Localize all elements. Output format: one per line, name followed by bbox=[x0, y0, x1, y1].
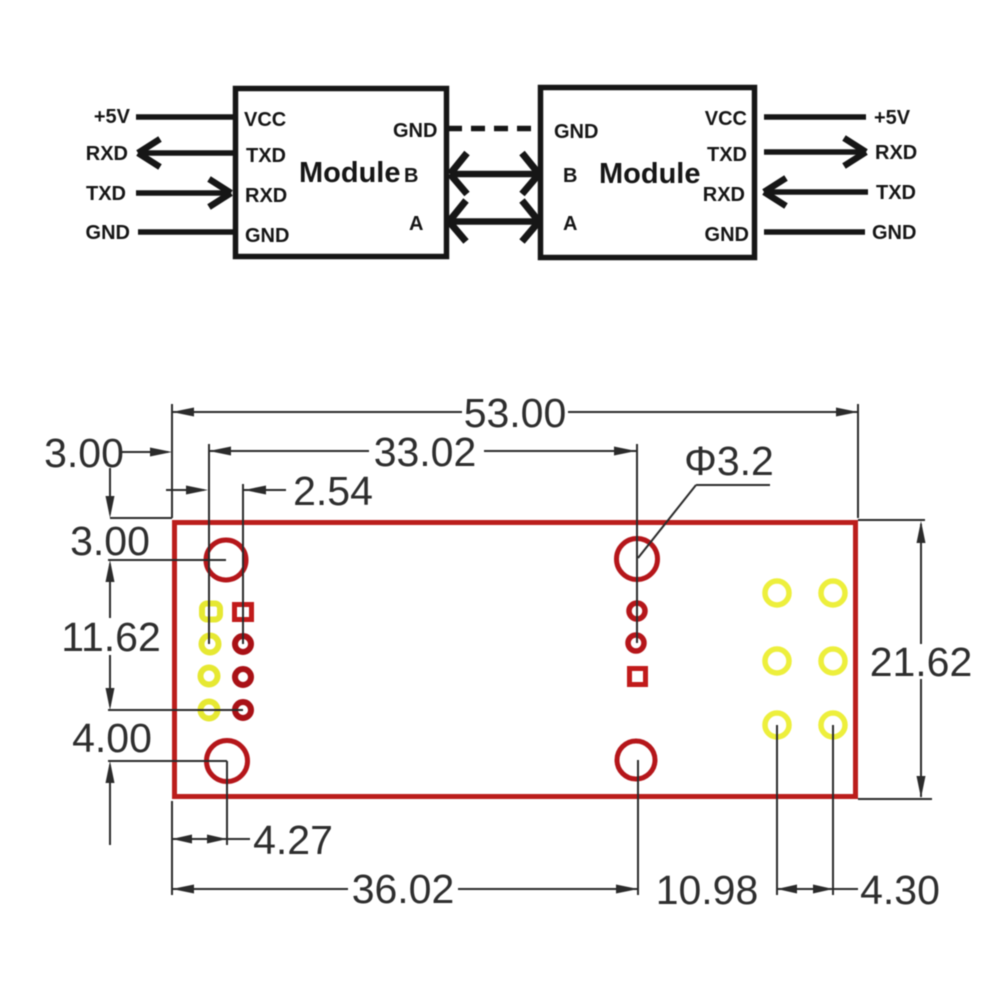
svg-text:+5V: +5V bbox=[874, 107, 911, 129]
dimension 4.30 bbox=[777, 867, 940, 913]
mounting hole H1 top-left bbox=[206, 540, 246, 580]
module U1 label bbox=[299, 157, 401, 189]
module U1 pin B bbox=[404, 165, 418, 187]
dimension 36.02 bbox=[172, 866, 638, 912]
node RXD left bbox=[86, 143, 128, 165]
extension line board right top bbox=[857, 404, 859, 518]
module U2 pin VCC bbox=[705, 108, 747, 130]
dimension 21.62 bbox=[870, 521, 973, 798]
svg-text:2.54: 2.54 bbox=[293, 468, 373, 514]
node GND left bbox=[86, 222, 130, 244]
svg-text:RXD: RXD bbox=[703, 184, 745, 206]
extension line hole H3 center bbox=[108, 760, 227, 762]
svg-text:4.27: 4.27 bbox=[253, 817, 333, 863]
svg-text:RXD: RXD bbox=[245, 185, 287, 207]
pad P4 yellow round bbox=[201, 702, 218, 719]
svg-text:TXD: TXD bbox=[876, 182, 916, 204]
svg-text:B: B bbox=[563, 165, 577, 187]
dimension 33.02 bbox=[209, 429, 636, 475]
module U1 box bbox=[236, 89, 447, 257]
svg-text:Module: Module bbox=[599, 158, 701, 190]
svg-text:33.02: 33.02 bbox=[374, 429, 477, 475]
module U2 pin TXD bbox=[707, 144, 747, 166]
dimension label Φ3.2 bbox=[638, 438, 774, 558]
svg-text:GND: GND bbox=[554, 121, 598, 143]
wire +5V to U1 VCC bbox=[136, 114, 233, 120]
wire TXD to U2 RXD arrow bbox=[764, 178, 868, 206]
dimension 2.54 bbox=[166, 468, 373, 514]
dimension 53.00 bbox=[172, 390, 858, 436]
PCB board outline bbox=[175, 523, 856, 797]
module U2 pin GND left bbox=[554, 121, 598, 143]
node RXD right bbox=[875, 142, 917, 164]
pad Q1 red square bbox=[235, 605, 252, 620]
svg-text:4.30: 4.30 bbox=[860, 867, 940, 913]
pad P2 yellow round bbox=[202, 636, 219, 653]
svg-text:4.00: 4.00 bbox=[72, 715, 152, 761]
pad R4 yellow bbox=[821, 649, 845, 673]
svg-text:36.02: 36.02 bbox=[352, 866, 455, 912]
pad M2 red round mid bbox=[628, 635, 644, 651]
extension line board left bottom bbox=[171, 801, 173, 895]
pad Q4 red round bbox=[235, 702, 251, 718]
extension line pad row 4 bbox=[108, 709, 243, 711]
svg-text:GND: GND bbox=[872, 222, 916, 244]
extension line board bottom right stub bbox=[858, 798, 932, 800]
node +5V right bbox=[874, 107, 911, 129]
wire GND dashed link bbox=[448, 126, 541, 132]
pad M3 red square mid bbox=[630, 669, 646, 685]
pad R6 yellow bbox=[821, 713, 845, 737]
extension line hole mid bbox=[636, 444, 638, 643]
svg-text:B: B bbox=[404, 165, 418, 187]
mounting hole H4 bottom-mid bbox=[617, 741, 655, 779]
pad Q3 red round bbox=[235, 669, 251, 685]
svg-text:A: A bbox=[563, 213, 577, 235]
module U2 pin RXD bbox=[703, 184, 745, 206]
svg-text:3.00: 3.00 bbox=[70, 518, 150, 564]
svg-text:10.98: 10.98 bbox=[656, 867, 759, 913]
node TXD right bbox=[876, 182, 916, 204]
mounting hole H3 bottom-left bbox=[207, 741, 248, 782]
wire U2 GND to GND bbox=[764, 229, 865, 235]
svg-text:RXD: RXD bbox=[875, 142, 917, 164]
extension line board top left stub bbox=[110, 517, 172, 519]
svg-text:VCC: VCC bbox=[244, 109, 286, 131]
module U2 label bbox=[599, 158, 701, 190]
module U2 pin B bbox=[563, 165, 577, 187]
dimension 3.00 vertical bbox=[70, 468, 150, 564]
pad R1 yellow bbox=[765, 581, 789, 605]
module U2 pin GND bbox=[705, 224, 749, 246]
dimension 4.27 bbox=[172, 817, 333, 863]
wire U1 TXD to RXD arrow bbox=[138, 139, 233, 167]
extension line hole H1 center bbox=[108, 559, 226, 561]
wire TXD to U1 RXD arrow bbox=[136, 179, 231, 207]
svg-text:RXD: RXD bbox=[86, 143, 128, 165]
pad R3 yellow bbox=[765, 649, 789, 673]
svg-text:TXD: TXD bbox=[707, 144, 747, 166]
extension line pad R6 vertical bbox=[832, 725, 834, 895]
module U1 pin A bbox=[409, 213, 423, 235]
svg-text:TXD: TXD bbox=[246, 145, 286, 167]
svg-text:VCC: VCC bbox=[705, 108, 747, 130]
wire B bus arrow bbox=[450, 153, 539, 194]
extension line hole H4 vertical bbox=[637, 760, 639, 895]
svg-text:TXD: TXD bbox=[86, 183, 126, 205]
module U1 pin TXD bbox=[246, 145, 286, 167]
svg-text:53.00: 53.00 bbox=[464, 390, 567, 436]
dimension 3.00 horizontal bbox=[44, 430, 172, 476]
wire U2 VCC to +5V bbox=[764, 114, 866, 120]
svg-text:11.62: 11.62 bbox=[61, 614, 161, 660]
pad R2 yellow bbox=[821, 581, 845, 605]
svg-text:21.62: 21.62 bbox=[870, 639, 973, 685]
pad M1 red round mid bbox=[629, 603, 645, 619]
module U1 pin GND right bbox=[393, 120, 437, 142]
node TXD left bbox=[86, 183, 126, 205]
module U1 pin VCC bbox=[244, 109, 286, 131]
module U2 pin A bbox=[563, 213, 577, 235]
pad P1 yellow square bbox=[202, 604, 220, 620]
extension line pad col 2 bbox=[242, 484, 244, 644]
svg-text:Module: Module bbox=[299, 157, 401, 189]
svg-text:+5V: +5V bbox=[94, 106, 131, 128]
pad Q2 red round bbox=[235, 636, 251, 652]
extension line pad col 1 bbox=[208, 444, 210, 644]
svg-text:3.00: 3.00 bbox=[44, 430, 124, 476]
svg-text:Φ3.2: Φ3.2 bbox=[684, 438, 774, 484]
svg-text:GND: GND bbox=[705, 224, 749, 246]
pad R5 yellow bbox=[765, 713, 789, 737]
dimension 4.00 bbox=[72, 715, 152, 845]
svg-text:GND: GND bbox=[86, 222, 130, 244]
mounting hole H2 top-mid bbox=[617, 539, 658, 580]
node GND right bbox=[872, 222, 916, 244]
module U1 pin GND bbox=[245, 225, 289, 247]
extension line board left top bbox=[171, 404, 173, 518]
svg-text:A: A bbox=[409, 213, 423, 235]
wire A bus arrow bbox=[449, 201, 539, 242]
wire GND to U1 GND bbox=[138, 229, 233, 235]
module U2 box bbox=[541, 88, 755, 258]
module U1 pin RXD bbox=[245, 185, 287, 207]
dimension 10.98 bbox=[656, 867, 759, 913]
node +5V left bbox=[94, 106, 131, 128]
extension line board top right stub bbox=[858, 519, 925, 521]
wire U2 TXD to RXD arrow bbox=[764, 138, 866, 166]
dimension 11.62 bbox=[61, 560, 161, 710]
extension line pad R5 vertical bbox=[776, 725, 778, 895]
extension line hole H3 vertical bbox=[226, 761, 228, 845]
svg-text:GND: GND bbox=[393, 120, 437, 142]
svg-text:GND: GND bbox=[245, 225, 289, 247]
pad P3 yellow round bbox=[201, 668, 218, 685]
